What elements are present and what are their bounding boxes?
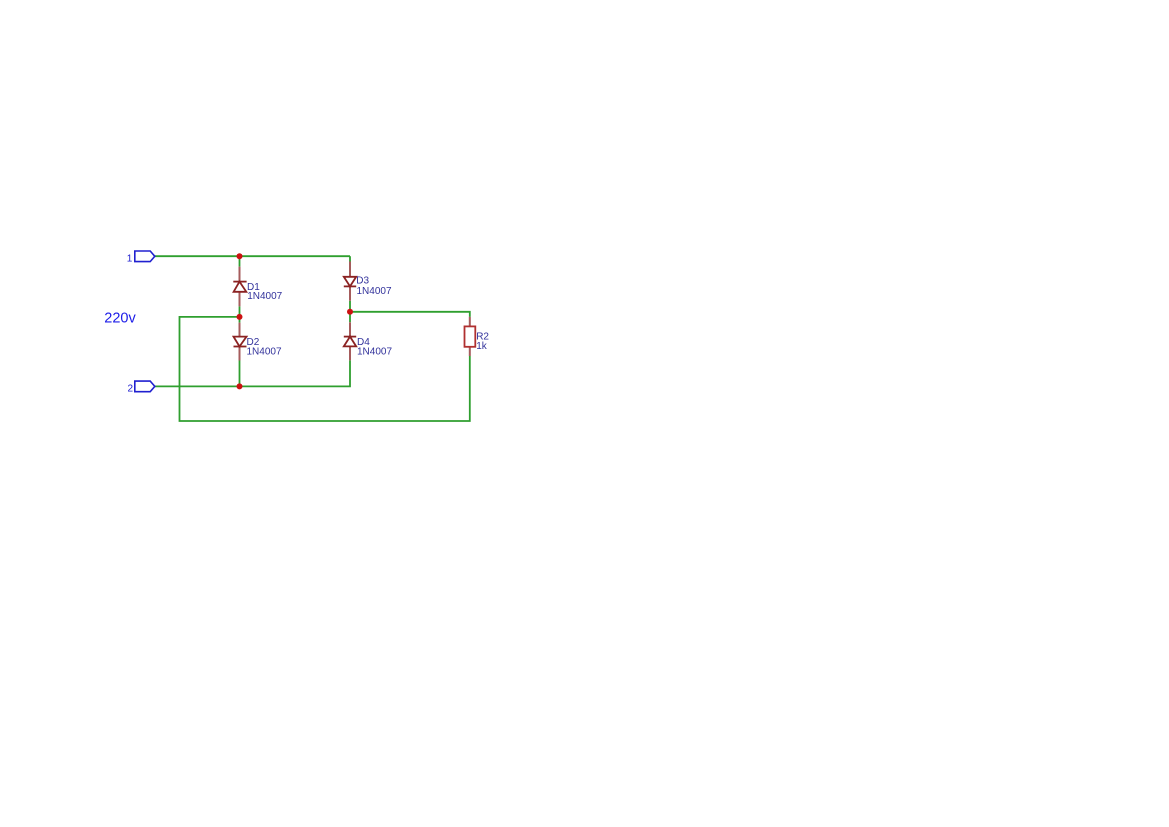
node: junction dot top (D1 top / terminal 1 net) <box>237 253 243 259</box>
diode D3 <box>344 262 356 301</box>
svg-text:1k: 1k <box>476 341 488 352</box>
terminal 2 <box>127 381 154 395</box>
svg-text:1N4007: 1N4007 <box>357 346 392 357</box>
svg-text:1N4007: 1N4007 <box>357 286 392 297</box>
wire: node A (D1/D2 junction) to left rail down to bottom rail and R2 bottom <box>180 306 470 421</box>
node: junction dot D3/D4 <box>347 309 353 315</box>
wire: D3/D4 junction to R2 top <box>350 301 470 322</box>
node: junction dot bottom (D2 bottom / terminal 2 net) <box>237 383 243 389</box>
node: junction dot D1/D2 <box>237 314 243 320</box>
wire: top net from terminal 1 to D3 <box>155 256 350 266</box>
diode D1 <box>233 267 246 307</box>
svg-text:D3: D3 <box>356 276 369 287</box>
svg-text:1: 1 <box>127 254 133 265</box>
svg-text:1N4007: 1N4007 <box>247 291 282 302</box>
diode D2 <box>234 323 247 361</box>
svg-text:220v: 220v <box>104 311 136 327</box>
svg-text:2: 2 <box>127 384 133 395</box>
svg-text:1N4007: 1N4007 <box>247 346 282 357</box>
diode D4 <box>344 322 356 360</box>
wire: bottom net terminal 2 to D2 and D4 <box>155 360 350 386</box>
resistor R2 <box>465 317 476 356</box>
terminal 1 <box>127 251 155 265</box>
